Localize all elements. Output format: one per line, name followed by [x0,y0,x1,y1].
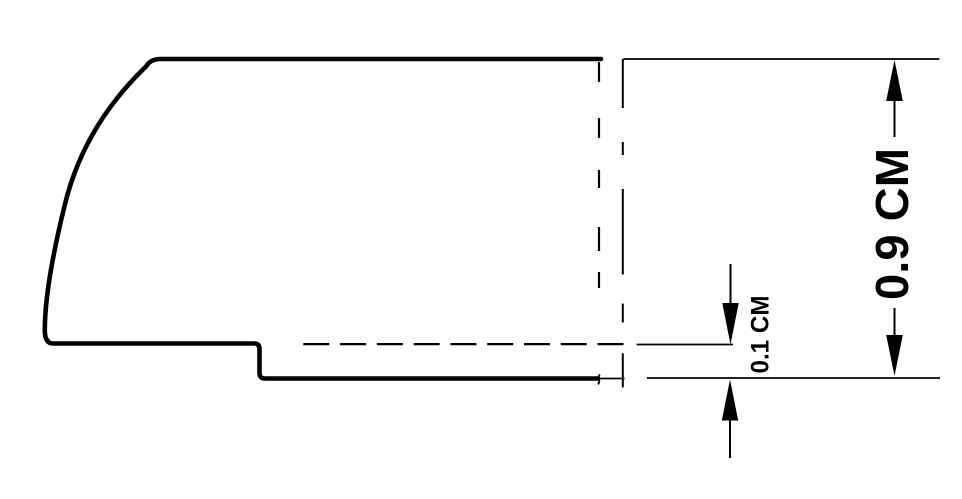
svg-text:0.1 CM: 0.1 CM [747,296,775,374]
svg-text:0.9 CM: 0.9 CM [866,148,918,300]
